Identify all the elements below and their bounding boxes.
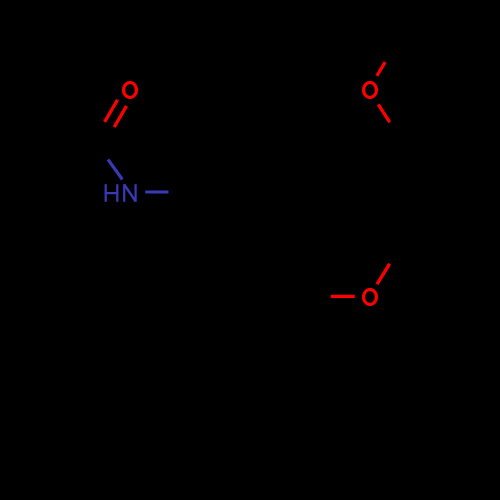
amide nitrogen label HN	[105, 184, 136, 202]
bond O-CH3 (oxygen half, top right)	[377, 62, 385, 76]
C=O double bond (oxygen half, line 2)	[114, 106, 126, 127]
methoxy oxygen O (top right)	[364, 83, 377, 98]
bond C-O horizontal (oxygen half, mid right)	[331, 295, 355, 298]
bond O-ring C (oxygen half, top right)	[378, 104, 389, 122]
bond N-C ring (nitrogen half)	[145, 191, 168, 194]
pyran ring oxygen O (mid right)	[364, 290, 377, 305]
carbonyl oxygen O (acetamide C=O)	[124, 83, 137, 98]
bond O-ring C up-right (oxygen half, mid right)	[377, 264, 390, 285]
C=O double bond (oxygen half, line 1)	[105, 100, 118, 122]
bond C-N (nitrogen half)	[108, 160, 122, 180]
